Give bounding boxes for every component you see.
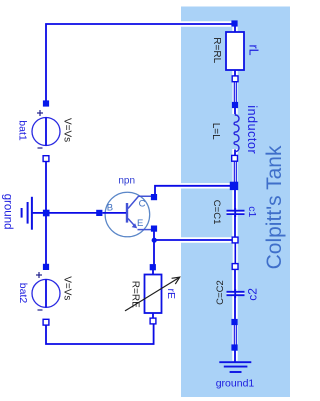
svg-text:R=RE: R=RE (130, 281, 141, 308)
svg-text:rE: rE (165, 289, 177, 300)
svg-text:ground1: ground1 (216, 377, 255, 389)
svg-text:c1: c1 (246, 206, 258, 217)
svg-text:V=Vs: V=Vs (62, 118, 73, 142)
svg-text:ground: ground (2, 194, 14, 230)
svg-text:inductor: inductor (245, 105, 259, 154)
svg-text:L=L: L=L (210, 123, 221, 140)
svg-text:B: B (107, 203, 113, 214)
svg-text:npn: npn (118, 176, 135, 187)
svg-text:c2: c2 (246, 288, 260, 301)
svg-text:C=C1: C=C1 (211, 200, 222, 225)
svg-text:C=C2: C=C2 (215, 280, 226, 305)
svg-text:C: C (139, 199, 146, 210)
svg-text:bat2: bat2 (17, 283, 29, 304)
svg-text:E: E (137, 218, 143, 229)
svg-text:Colpitt's Tank: Colpitt's Tank (263, 145, 286, 269)
svg-text:rL: rL (246, 45, 260, 56)
svg-text:V=Vs: V=Vs (62, 276, 73, 300)
svg-text:bat1: bat1 (17, 120, 29, 141)
svg-text:R=RL: R=RL (211, 37, 222, 63)
